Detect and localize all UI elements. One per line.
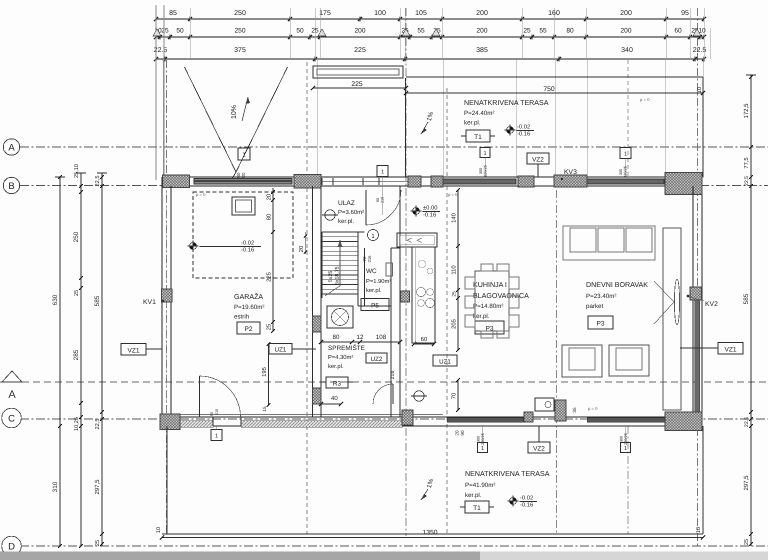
right dim chain x751 <box>743 75 756 546</box>
dimension row 2 (10 25 50 250 ... 25 10) <box>154 28 706 40</box>
svg-text:20: 20 <box>266 194 273 200</box>
svg-text:22,5: 22,5 <box>744 176 750 186</box>
tag VZ2 top <box>527 153 549 177</box>
left dim chain x60 (630/310) <box>52 175 65 548</box>
room label GARAZA <box>234 292 264 321</box>
section line A-A <box>0 381 768 383</box>
interior wall garage/hall <box>313 186 322 417</box>
garage interior dim chain <box>266 188 275 333</box>
svg-text:20: 20 <box>298 246 305 252</box>
svg-text:10: 10 <box>156 527 162 533</box>
svg-text:25: 25 <box>74 290 80 296</box>
svg-text:297,5: 297,5 <box>94 479 101 495</box>
svg-text:25: 25 <box>266 324 273 330</box>
svg-text:ker.pl.: ker.pl. <box>328 363 344 370</box>
bottom wall outline <box>162 415 702 427</box>
svg-text:NENATKRIVENA TERASA: NENATKRIVENA TERASA <box>465 470 550 478</box>
svg-text:DNEVNI BORAVAK: DNEVNI BORAVAK <box>586 281 648 289</box>
svg-text:175: 175 <box>319 10 331 17</box>
svg-text:ker.pl.: ker.pl. <box>338 218 354 225</box>
svg-text:UZ1: UZ1 <box>439 359 451 366</box>
top wall hatch block 2 <box>294 175 321 189</box>
svg-text:55: 55 <box>417 28 425 35</box>
svg-text:60: 60 <box>674 28 682 35</box>
svg-text:1350: 1350 <box>422 530 437 537</box>
svg-text:205: 205 <box>451 319 458 329</box>
svg-text:T1: T1 <box>474 134 482 141</box>
top wall corner hatch right <box>665 173 702 195</box>
label KV2 <box>687 295 718 308</box>
left dim chain x81 (250/25/285/10.25) <box>73 164 86 548</box>
entrance door arc <box>366 190 401 225</box>
spremiste door arc <box>373 384 393 404</box>
svg-text:225: 225 <box>354 47 366 54</box>
svg-text:60: 60 <box>421 336 428 343</box>
svg-text:P=23.40m²: P=23.40m² <box>586 293 616 300</box>
svg-text:630: 630 <box>52 294 59 305</box>
svg-text:GARAŽA: GARAŽA <box>234 292 263 301</box>
lower terrace tag T1 <box>460 501 494 513</box>
svg-text:ker.pl.: ker.pl. <box>465 492 482 499</box>
right wall hatch KV2 <box>690 287 702 300</box>
bottom wall hatch block b <box>524 412 533 422</box>
dim 20 garage wall <box>298 232 307 254</box>
svg-text:B: B <box>8 181 14 192</box>
svg-text:216: 216 <box>367 255 372 263</box>
vertical axis line x559 <box>556 190 558 534</box>
svg-text:10: 10 <box>697 87 703 93</box>
top wall hatch block 4 <box>431 176 443 187</box>
boxed marker 1 upper terrace right <box>619 148 631 178</box>
svg-text:195: 195 <box>261 367 268 377</box>
sofa <box>563 226 655 260</box>
svg-text:A: A <box>8 389 16 401</box>
svg-text:1: 1 <box>624 446 627 452</box>
svg-text:100: 100 <box>374 10 386 17</box>
bottom wall glass door kitchen (dark band) <box>447 418 523 423</box>
upper terrace tag T1 <box>461 130 495 142</box>
left wall hatch KV1 <box>162 289 173 302</box>
tag R3 <box>321 377 353 388</box>
tag UZ1 right <box>433 355 457 366</box>
svg-text:585: 585 <box>94 295 101 306</box>
roof slope 10% arrow <box>231 97 250 121</box>
svg-text:220/25: 220/25 <box>624 166 628 178</box>
tag P2 <box>237 322 260 334</box>
coffee table 1 <box>562 345 602 377</box>
tag VZ2 bottom <box>528 426 550 453</box>
svg-text:200: 200 <box>476 10 488 17</box>
svg-text:1: 1 <box>624 152 627 158</box>
dining table <box>465 264 519 338</box>
upper terrace outline <box>406 77 704 177</box>
svg-text:KV3: KV3 <box>564 169 577 176</box>
tiny p=0 marks <box>196 97 650 411</box>
svg-text:25: 25 <box>95 540 101 546</box>
svg-text:285: 285 <box>73 349 80 360</box>
staircase walk line arrow <box>325 240 343 296</box>
svg-text:P=14.80m²: P=14.80m² <box>473 303 503 310</box>
dims 80 12 108 <box>319 334 402 344</box>
svg-text:VZ1: VZ1 <box>724 347 736 354</box>
top wall window band hall <box>321 178 408 185</box>
staircase treads <box>322 232 358 298</box>
top wall outline <box>162 177 702 186</box>
svg-text:C: C <box>8 413 15 424</box>
svg-text:5x25: 5x25 <box>328 271 334 282</box>
svg-text:D: D <box>8 541 15 552</box>
svg-text:25: 25 <box>744 539 750 545</box>
svg-text:P=3.60m²: P=3.60m² <box>338 209 364 216</box>
dim 195 garage right <box>261 342 270 411</box>
lower terrace outline <box>162 426 703 534</box>
left dim chain x102 (22.5/585/22.5/297.5/25) <box>94 173 107 546</box>
slope 1% arrow lower terrace <box>421 478 435 500</box>
svg-text:1: 1 <box>215 434 218 440</box>
bottom wall hatch block a <box>402 410 413 425</box>
vertical axis line x628 <box>627 60 629 534</box>
insulation hat marks <box>153 29 701 36</box>
boxed marker 1 entrance door <box>376 166 388 216</box>
svg-text:P=1.90m²: P=1.90m² <box>366 278 391 285</box>
svg-text:220/25: 220/25 <box>624 433 628 445</box>
svg-text:250: 250 <box>234 28 245 35</box>
svg-text:385: 385 <box>476 47 488 54</box>
svg-text:1: 1 <box>483 151 486 157</box>
garage entry door opening <box>213 417 241 426</box>
svg-text:22,5: 22,5 <box>95 176 101 187</box>
svg-text:ρ = 0: ρ = 0 <box>448 192 458 197</box>
circled stair number 1 <box>368 230 379 241</box>
svg-text:200: 200 <box>620 28 631 35</box>
svg-text:UZ2: UZ2 <box>371 356 383 363</box>
dimension 750 upper terrace <box>404 86 705 95</box>
svg-text:35: 35 <box>572 407 577 413</box>
svg-text:VZ2: VZ2 <box>533 446 545 453</box>
tag P3 kitchen <box>475 321 504 334</box>
svg-text:R3: R3 <box>333 381 342 388</box>
svg-text:NENATKRIVENA TERASA: NENATKRIVENA TERASA <box>464 99 549 107</box>
footer grey bar light <box>480 552 768 560</box>
svg-text:210: 210 <box>381 197 385 203</box>
dim 60 and 216 near UZ1 <box>390 336 436 379</box>
svg-text:10,25: 10,25 <box>74 417 80 431</box>
TV symbol <box>654 279 680 325</box>
svg-text:parket: parket <box>586 303 603 310</box>
tag P3 living <box>588 316 613 329</box>
svg-text:1: 1 <box>381 170 384 176</box>
svg-text:375: 375 <box>234 47 246 54</box>
svg-text:-0.02: -0.02 <box>520 495 533 502</box>
slope 1% arrow upper terrace <box>421 111 435 134</box>
svg-text:140: 140 <box>451 213 458 223</box>
interior wall hatch kitchen side <box>401 291 410 302</box>
svg-text:VZ1: VZ1 <box>127 348 139 355</box>
vertical axis line x406 <box>405 8 407 536</box>
coffee table 2 <box>609 345 649 376</box>
top wall glass door kitchen (dark band) <box>443 179 516 184</box>
roof slope V lines <box>185 67 288 179</box>
dim 70 kitchen bottom <box>451 378 466 435</box>
bottom wall fixture box <box>535 398 554 411</box>
elevation mark upper terrace -0.02/-0.16 <box>505 124 535 138</box>
room label ULAZ <box>338 200 364 225</box>
garage entry door leaf and arc <box>200 376 241 417</box>
svg-text:300: 300 <box>620 436 624 442</box>
svg-text:90: 90 <box>460 430 465 436</box>
svg-text:25: 25 <box>452 291 458 297</box>
hall interior dim chain 140/110/20/205 <box>451 188 460 352</box>
svg-text:-0.16: -0.16 <box>423 212 436 219</box>
svg-text:50: 50 <box>296 28 304 35</box>
svg-text:80: 80 <box>333 334 340 341</box>
svg-text:85: 85 <box>169 10 177 17</box>
svg-text:1: 1 <box>481 446 484 452</box>
top wall hatch block 6 KV3 <box>554 175 587 187</box>
svg-text:225: 225 <box>266 272 273 282</box>
room label KUHINJA I BLAGOVAONICA <box>473 281 529 320</box>
svg-text:P5: P5 <box>371 303 379 310</box>
grid bubble C <box>2 408 22 428</box>
tag UZ1 left <box>269 344 316 355</box>
svg-text:15: 15 <box>262 406 267 412</box>
svg-text:P=41.90m²: P=41.90m² <box>465 482 495 489</box>
door section symbol ULAZ <box>322 210 338 220</box>
svg-text:P=24.40m²: P=24.40m² <box>464 110 494 117</box>
top wall hatch block 3 <box>408 176 421 187</box>
svg-text:KV2: KV2 <box>705 301 718 308</box>
svg-text:ker.pl.: ker.pl. <box>473 313 490 320</box>
grid axis line B <box>20 185 768 187</box>
svg-text:80: 80 <box>266 214 273 220</box>
room label DNEVNI BORAVAK <box>586 281 648 310</box>
tag P5 <box>361 299 389 311</box>
roof marker box 1 <box>236 148 250 180</box>
boxed marker 1 lower terrace right <box>620 426 631 453</box>
svg-text:172,5: 172,5 <box>743 103 750 119</box>
svg-text:310: 310 <box>52 481 59 492</box>
dim 35 fixture <box>572 407 577 413</box>
svg-text:200: 200 <box>476 28 487 35</box>
dim 40 spremiste <box>319 395 343 406</box>
kitchen counter vertical with hob <box>412 247 435 343</box>
svg-text:25,10: 25,10 <box>74 164 80 178</box>
footer grey bar dark <box>0 552 480 560</box>
tag UZ2 <box>366 353 387 363</box>
bottom wall hatch block c <box>555 400 566 421</box>
canopy rectangle above entrance <box>313 66 403 78</box>
svg-text:5x18,75: 5x18,75 <box>335 266 341 285</box>
svg-text:P3: P3 <box>485 326 493 333</box>
svg-text:-0.16: -0.16 <box>241 247 254 254</box>
svg-text:225: 225 <box>351 81 363 88</box>
svg-text:±0.00: ±0.00 <box>423 205 437 212</box>
bottom wall solid hatched band garage <box>180 421 402 428</box>
kitchen counter top with sink <box>397 233 437 247</box>
lower terrace label NENATKRIVENA TERASA <box>465 470 550 499</box>
WC fixture <box>386 263 393 276</box>
svg-text:110: 110 <box>451 265 458 274</box>
svg-text:50: 50 <box>176 28 184 35</box>
dimension extension lines top <box>156 5 710 180</box>
top wall hatch block 5 <box>518 176 534 187</box>
grid axis line C <box>20 418 768 420</box>
svg-text:40: 40 <box>331 395 338 402</box>
svg-text:250: 250 <box>73 231 80 242</box>
svg-text:340: 340 <box>621 47 633 54</box>
dimension 225 canopy <box>311 81 408 90</box>
door section symbol spremiste <box>411 391 427 401</box>
svg-text:KV1: KV1 <box>143 299 156 306</box>
svg-text:WC: WC <box>366 268 377 275</box>
svg-text:UZ1: UZ1 <box>275 347 287 354</box>
bottom wall corner hatch right <box>665 412 702 431</box>
grid axis line D <box>20 545 768 547</box>
right wall window band <box>693 300 702 412</box>
top wall garage dark band <box>194 179 292 185</box>
vertical axis line x447 <box>446 88 448 534</box>
svg-text:ρ = 0: ρ = 0 <box>196 192 206 197</box>
svg-text:12: 12 <box>357 334 364 341</box>
svg-text:A: A <box>8 142 15 153</box>
svg-text:55: 55 <box>539 28 547 35</box>
interior wall WC/spremiste right <box>391 186 400 417</box>
svg-text:ker.pl.: ker.pl. <box>366 287 382 294</box>
dimension row 3 (22.5 375 225 385 340 22.5) <box>154 47 707 62</box>
elevation mark hall +-0.00 <box>411 205 441 219</box>
svg-text:BLAGOVAONICA: BLAGOVAONICA <box>473 292 529 300</box>
grid bubble A <box>3 139 19 155</box>
svg-text:95: 95 <box>681 10 689 17</box>
svg-text:90: 90 <box>376 198 380 202</box>
tag VZ1 right <box>680 343 743 355</box>
svg-text:25: 25 <box>161 28 169 35</box>
svg-text:-0.16: -0.16 <box>520 502 533 509</box>
svg-text:300: 300 <box>477 436 481 442</box>
tag VZ1 left <box>121 344 162 356</box>
interior wall hatch mid <box>313 316 322 332</box>
upper terrace label NENATKRIVENA TERASA <box>464 99 549 127</box>
svg-text:ker.pl.: ker.pl. <box>464 120 481 127</box>
svg-text:-0.02: -0.02 <box>241 240 254 247</box>
grid bubble B <box>3 177 19 193</box>
svg-text:216: 216 <box>390 371 396 380</box>
svg-text:300: 300 <box>619 169 623 175</box>
svg-text:P=19.60m²: P=19.60m² <box>234 304 264 311</box>
right wall outline <box>693 186 702 426</box>
svg-text:200: 200 <box>354 28 365 35</box>
label KV3 <box>561 169 577 180</box>
svg-text:750: 750 <box>543 86 555 93</box>
WC left wall <box>358 232 391 306</box>
garage dashed platform outline <box>193 192 293 278</box>
svg-text:70: 70 <box>451 393 458 399</box>
svg-text:220/25: 220/25 <box>481 433 485 445</box>
svg-text:80: 80 <box>566 28 574 35</box>
TV wall unit <box>663 228 681 410</box>
svg-text:250: 250 <box>234 10 246 17</box>
label KV1 <box>143 299 164 306</box>
svg-text:10: 10 <box>696 527 702 533</box>
room label SPREMISTE <box>328 344 365 370</box>
svg-text:P=4.30m²: P=4.30m² <box>328 354 353 361</box>
svg-text:90: 90 <box>210 412 214 416</box>
room label WC <box>362 255 391 294</box>
garage skylight box <box>232 197 255 215</box>
svg-text:P2: P2 <box>244 326 252 333</box>
svg-text:585: 585 <box>743 293 750 304</box>
bottom wall corner hatch left <box>160 414 180 430</box>
elevation mark lower terrace <box>508 495 538 509</box>
top wall hatch block 1 <box>163 175 190 188</box>
svg-text:300: 300 <box>479 168 483 174</box>
svg-text:297,5: 297,5 <box>743 475 750 491</box>
svg-text:T1: T1 <box>473 505 481 512</box>
boxed marker 1 lower terrace left <box>477 426 488 453</box>
svg-text:20: 20 <box>455 430 460 436</box>
washing machine <box>327 306 353 328</box>
top wall window living (dark band) <box>587 179 664 184</box>
svg-text:estrih: estrih <box>234 314 250 321</box>
svg-text:22,5: 22,5 <box>744 417 750 427</box>
svg-text:KUHINJA I: KUHINJA I <box>473 281 507 289</box>
svg-text:ULAZ: ULAZ <box>338 200 355 207</box>
svg-text:-0.16: -0.16 <box>517 131 530 138</box>
boxed marker 1 garage door <box>210 409 222 441</box>
svg-text:ρ = 0: ρ = 0 <box>588 406 598 411</box>
svg-text:-0.02: -0.02 <box>517 124 530 131</box>
grid bubble D <box>2 536 22 556</box>
svg-text:VZ2: VZ2 <box>532 157 544 164</box>
dimension row 1 (85 250 175 100 105 200 160 200 95) <box>154 10 706 22</box>
svg-text:200: 200 <box>620 10 632 17</box>
svg-text:108: 108 <box>376 334 387 341</box>
svg-text:10%: 10% <box>231 105 238 119</box>
stairs label 5x25 5x18.75 <box>328 266 341 285</box>
svg-text:22.5: 22.5 <box>693 47 707 54</box>
svg-text:25: 25 <box>523 28 531 35</box>
interior wall hatch low <box>313 388 322 404</box>
svg-text:105: 105 <box>415 10 427 17</box>
svg-text:220/25: 220/25 <box>484 165 488 177</box>
svg-text:210: 210 <box>215 409 219 415</box>
svg-text:22,5: 22,5 <box>95 419 101 430</box>
left wall outline <box>162 177 171 426</box>
vertical axis line x697 (right wall axis) <box>697 8 699 546</box>
section marker A triangle <box>2 371 22 401</box>
vertical axis line x167 (left wall axis) <box>166 60 168 534</box>
boxed marker 1 upper terrace left <box>479 148 490 178</box>
dimension 1350 lower terrace <box>156 527 705 540</box>
elevation mark garage <box>188 240 262 254</box>
svg-text:77,5: 77,5 <box>744 157 750 168</box>
vertical axis line x307 <box>306 62 308 534</box>
bottom wall glass door living (dark band) <box>587 418 666 423</box>
svg-text:P3: P3 <box>596 321 604 328</box>
svg-text:SPREMIŠTE: SPREMIŠTE <box>328 344 365 352</box>
svg-text:ρ = 0: ρ = 0 <box>640 97 650 102</box>
grid axis line A <box>20 146 768 148</box>
